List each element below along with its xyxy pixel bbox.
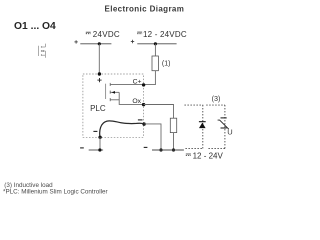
left supply rail — [80, 43, 111, 45]
terminal Ox — [142, 103, 145, 106]
internal minus link (thick curved wire) — [100, 121, 144, 137]
resistor R1 — [152, 56, 158, 71]
svg-text:(3): (3) — [212, 94, 221, 103]
varistor RV1 diagonal with foot — [218, 120, 229, 129]
load branch top dashed wire (diode) — [185, 104, 204, 106]
MOSFET Q1 join wire to Ox — [119, 92, 143, 104]
minus sign left rail — [80, 147, 84, 149]
bottom dashed wire right segment — [209, 148, 225, 150]
transistor icon (small MOSFET, output type) — [39, 44, 46, 58]
terminal + (top) — [98, 72, 101, 75]
node on right rail — [154, 42, 157, 45]
wire Ox to resistor R2 — [144, 105, 174, 119]
load branch top dashed wire (varistor) — [206, 104, 225, 106]
minus sign right rail — [144, 146, 148, 148]
svg-text:12 - 24VDC: 12 - 24VDC — [143, 30, 187, 39]
right supply rail — [137, 43, 176, 45]
node on left rail — [98, 42, 101, 45]
MOSFET Q1 gate — [105, 84, 107, 99]
svg-text:C+: C+ — [133, 78, 142, 85]
svg-text:U: U — [227, 127, 232, 136]
wire rail to PLC box — [98, 44, 100, 74]
svg-text:12 - 24V: 12 - 24V — [193, 151, 224, 160]
svg-text:*PLC: Millenium Slim Logic Con: *PLC: Millenium Slim Logic Controller — [3, 188, 108, 195]
diode branch dashed vertical — [202, 105, 204, 149]
node on left rail bottom — [98, 148, 101, 151]
bottom supply DC symbol — [186, 153, 191, 155]
left supply DC symbol — [86, 31, 91, 33]
svg-text:Electronic Diagram: Electronic Diagram — [105, 5, 185, 14]
svg-text:PLC: PLC — [90, 104, 106, 113]
wire minus terminal to bottom rail — [144, 124, 161, 150]
right supply DC symbol — [137, 31, 142, 33]
right supply plus sign — [131, 40, 134, 43]
varistor RV1 plates — [221, 117, 227, 119]
left supply plus sign — [74, 40, 77, 43]
wire R1 to C+ corner — [144, 71, 156, 85]
wire rail to resistor R1 — [154, 44, 156, 56]
varistor branch dashed vertical — [224, 105, 226, 149]
svg-text:24VDC: 24VDC — [93, 30, 120, 39]
MOSFET Q1 channel bars — [109, 83, 111, 101]
diode D1 triangle — [199, 123, 206, 129]
MOSFET Q1 drain wire to C+ — [110, 84, 143, 86]
node R2 bottom — [172, 148, 175, 151]
MOSFET Q1 body stub with arrow — [110, 91, 119, 93]
terminal minus (bottom) — [98, 136, 101, 139]
terminal C+ — [142, 83, 145, 86]
bottom dashed wire left segment — [186, 148, 204, 150]
terminal minus (right) — [142, 122, 145, 125]
svg-text:Ox: Ox — [132, 98, 141, 105]
svg-text:O1 ... O4: O1 ... O4 — [14, 21, 56, 32]
diode D1 cathode bar — [199, 121, 206, 123]
bottom-left rail — [89, 149, 103, 151]
PLC dashed box — [83, 74, 143, 137]
wire R2 to bottom rail — [173, 133, 175, 150]
svg-text:(1): (1) — [162, 61, 171, 68]
bottom-right rail — [152, 149, 184, 151]
arrow of small MOSFET — [42, 50, 44, 52]
node wire bottom — [159, 148, 162, 151]
resistor R2 (load) — [170, 118, 176, 132]
MOSFET Q1 source stub — [110, 99, 119, 101]
wire bottom terminal to left rail — [99, 137, 101, 150]
